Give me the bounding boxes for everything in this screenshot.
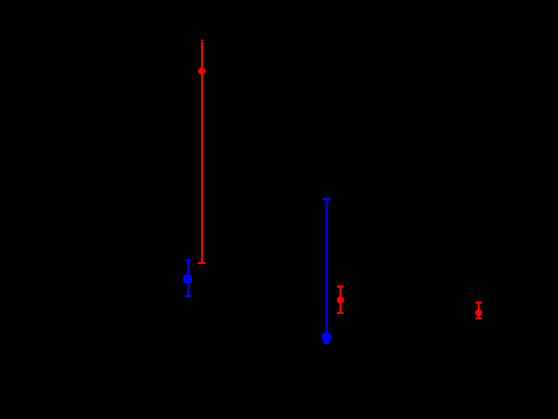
blue errorbar 2 top cap	[323, 198, 330, 200]
blue errorbar 2 bottom cap	[323, 341, 330, 343]
red errorbar 1 top tick	[201, 39, 203, 41]
blue data point 2 marker	[322, 333, 331, 342]
blue errorbar 1 top cap	[185, 259, 191, 261]
red errorbar 2 bottom cap	[337, 312, 344, 314]
red errorbar 2 vertical line	[339, 287, 341, 313]
red errorbar 3 vertical line	[478, 303, 480, 319]
red data point 3 marker	[475, 309, 482, 316]
blue errorbar 2 vertical line	[326, 199, 328, 344]
blue errorbar 1 bottom cap	[185, 295, 191, 297]
red errorbar 2 top cap	[337, 286, 344, 288]
red errorbar 3 bottom cap	[475, 317, 482, 319]
blue data point 1 marker	[183, 275, 192, 284]
red data point 2 marker	[337, 297, 344, 304]
red errorbar 1 bottom cap	[198, 262, 205, 264]
red errorbar 3 top cap	[475, 302, 482, 304]
red errorbar 1 vertical line	[201, 42, 203, 264]
blue errorbar 1 vertical line	[187, 260, 189, 296]
red data point 1 marker	[198, 68, 205, 75]
